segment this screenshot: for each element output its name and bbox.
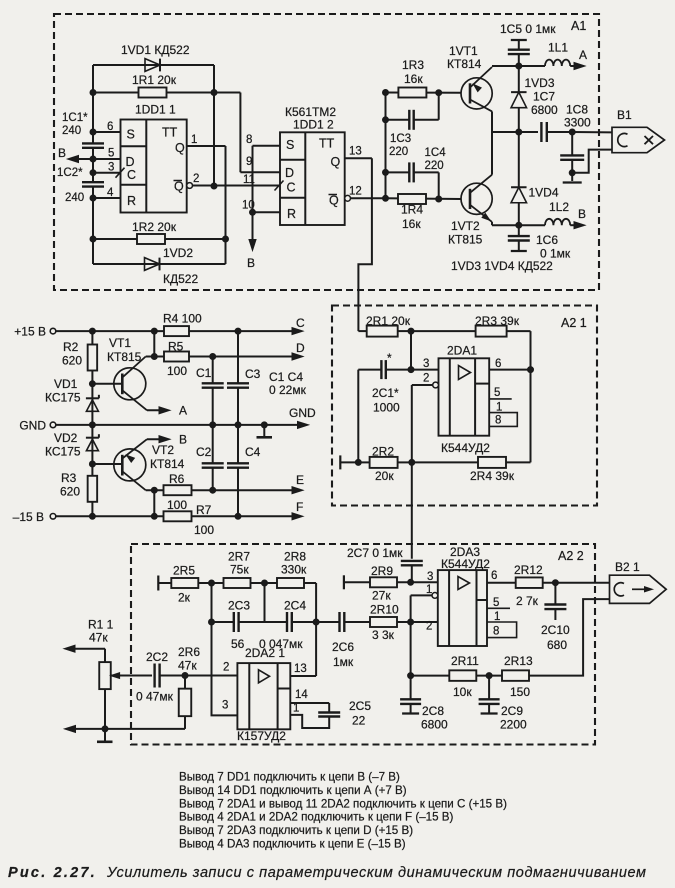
svg-text:2С3: 2С3 xyxy=(228,599,250,613)
svg-text:100: 100 xyxy=(194,523,214,537)
zener VD1 KS175 xyxy=(45,377,99,411)
svg-text:3: 3 xyxy=(108,162,114,174)
wire output node vertical to 2R3 and 2R4 xyxy=(530,331,532,462)
open terminal left of 2R9 xyxy=(344,575,370,589)
capacitor C1 xyxy=(196,357,224,425)
svg-text:5: 5 xyxy=(493,597,499,609)
input row to 2DA2.1 pin 2 xyxy=(111,650,238,704)
svg-text:100: 100 xyxy=(167,498,187,512)
capacitor 2C3 56 xyxy=(212,599,265,652)
capacitor 2C10 680 xyxy=(541,583,570,652)
svg-text:С2: С2 xyxy=(196,445,212,459)
svg-text:16к: 16к xyxy=(402,217,421,231)
label C1 C4 0.22uF xyxy=(269,370,307,397)
svg-text:R: R xyxy=(127,194,136,208)
svg-text:1VD4: 1VD4 xyxy=(529,186,559,200)
svg-text:1VT1: 1VT1 xyxy=(449,44,478,58)
resistor 2R13 150 xyxy=(502,654,533,699)
svg-text:1мк: 1мк xyxy=(333,655,354,669)
svg-text:6: 6 xyxy=(495,358,501,370)
svg-text:1L2: 1L2 xyxy=(549,200,569,214)
wire pin1 node down to 2R11 row xyxy=(408,622,414,679)
diode 1VD2 KD522 xyxy=(93,246,226,286)
svg-text:1С7: 1С7 xyxy=(533,90,555,104)
svg-text:10к: 10к xyxy=(453,685,472,699)
svg-text:Вывод 7 2DA3 подключить к цепи: Вывод 7 2DA3 подключить к цепи D (+15 В) xyxy=(179,824,413,837)
svg-text:330к: 330к xyxy=(281,563,307,577)
svg-text:1: 1 xyxy=(496,402,502,414)
pins 1 and 8 bracket 2DA3 xyxy=(487,611,517,638)
svg-text:1000: 1000 xyxy=(373,401,400,415)
node A arrow xyxy=(570,48,587,70)
wire left power rail xyxy=(89,331,95,519)
svg-text:Вывод 4 DA3 подключить к цепи: Вывод 4 DA3 подключить к цепи Е (–15 В) xyxy=(179,838,406,851)
capacitor 1C3 220 xyxy=(386,93,439,158)
svg-text:240: 240 xyxy=(62,125,81,137)
pin 5 wire D input 1DD1.1 xyxy=(93,148,121,160)
svg-text:D: D xyxy=(296,341,305,355)
svg-text:C: C xyxy=(287,181,296,195)
svg-text:13: 13 xyxy=(349,146,362,158)
diode 1VD4 xyxy=(511,186,559,203)
svg-text:2С2: 2С2 xyxy=(146,650,168,664)
svg-text:А2 1: А2 1 xyxy=(561,316,587,330)
svg-text:1С8: 1С8 xyxy=(566,103,588,117)
svg-text:1R1 20к: 1R1 20к xyxy=(132,73,177,87)
resistor R2 620 xyxy=(62,340,97,371)
pin 1 wire 2DA3 with bubble xyxy=(411,584,438,622)
svg-text:TT: TT xyxy=(162,126,178,140)
svg-text:1С2*: 1С2* xyxy=(57,167,83,179)
svg-text:100: 100 xyxy=(167,364,187,378)
svg-text:R5: R5 xyxy=(168,340,184,354)
svg-text:R4 100: R4 100 xyxy=(163,312,202,326)
svg-text:4: 4 xyxy=(107,187,114,199)
svg-text:КТ814: КТ814 xyxy=(447,57,482,71)
capacitor 1C1 240 xyxy=(62,112,104,148)
op-amp 2DA3 K544UD2 xyxy=(438,545,490,646)
svg-text:1DD1 1: 1DD1 1 xyxy=(135,103,176,117)
svg-text:1: 1 xyxy=(426,584,432,596)
svg-text:1С1*: 1С1* xyxy=(62,112,88,124)
svg-text:6800: 6800 xyxy=(421,718,448,732)
resistor 2R2 20k xyxy=(358,445,415,484)
svg-text:2R12: 2R12 xyxy=(514,563,543,577)
svg-text:R6: R6 xyxy=(169,472,185,486)
svg-text:А2 2: А2 2 xyxy=(558,549,584,563)
svg-text:VD2: VD2 xyxy=(54,431,78,445)
svg-text:2R5: 2R5 xyxy=(173,564,195,578)
svg-text:КТ815: КТ815 xyxy=(448,233,483,247)
svg-text:В: В xyxy=(58,146,66,160)
wire 2R5 node rail down to pin3 row xyxy=(209,583,238,715)
connector B2.1 xyxy=(610,560,667,603)
diode 1VD1 KD522 xyxy=(93,43,214,71)
svg-text:S: S xyxy=(286,138,294,152)
wire 1R1 node to D input of 1DD1.2 xyxy=(214,93,280,173)
op-amp 2DA2.1 K157UD2 xyxy=(222,646,290,743)
svg-text:220: 220 xyxy=(389,146,408,158)
wire 2R2 node down to 2C7 xyxy=(411,462,413,558)
svg-text:14: 14 xyxy=(295,689,308,701)
terminal -15V xyxy=(13,510,93,524)
svg-text:56: 56 xyxy=(231,637,245,651)
pin 2 Q-bar output 1DD1.1 with bubble xyxy=(187,173,280,188)
svg-text:9: 9 xyxy=(246,156,252,168)
block A1 dashed frame xyxy=(54,14,599,290)
svg-text:0 47мк: 0 47мк xyxy=(136,690,174,704)
svg-text:Вывод 7 2DA1 и вывод 11 2DA2 п: Вывод 7 2DA1 и вывод 11 2DA2 подключить … xyxy=(179,797,507,810)
wire left rail of oscillator xyxy=(90,65,96,264)
transistor VT2 KT814 xyxy=(92,439,184,490)
wiper arrow of R1.1 xyxy=(111,673,131,679)
transistor VT1 KT815 xyxy=(92,336,147,410)
svg-text:Е: Е xyxy=(296,473,304,487)
svg-text:К157УД2: К157УД2 xyxy=(237,729,286,743)
svg-text:В: В xyxy=(247,256,255,270)
svg-text:2R8: 2R8 xyxy=(284,550,306,564)
svg-text:C: C xyxy=(127,168,136,182)
svg-text:VD1: VD1 xyxy=(54,377,78,391)
svg-text:1DD1 2: 1DD1 2 xyxy=(293,118,334,132)
wire output node to B1 xyxy=(569,129,612,135)
wire bottom rail emitter 1VT2 to arrow B xyxy=(492,222,545,228)
svg-text:А: А xyxy=(579,48,587,62)
svg-text:1VD1 КД522: 1VD1 КД522 xyxy=(121,43,190,57)
wire R4 row to R5 row xyxy=(151,331,157,359)
svg-text:*: * xyxy=(387,351,392,365)
svg-text:8: 8 xyxy=(493,626,499,638)
transistor 1VT2 KT815 xyxy=(448,132,492,247)
capacitor 1C6 0.1uF xyxy=(508,225,571,260)
resistor 2R12 2.7k xyxy=(514,563,610,608)
svg-text:680: 680 xyxy=(547,638,567,652)
svg-text:1С6: 1С6 xyxy=(536,233,558,247)
resistor 2R7 75k xyxy=(224,550,278,589)
pin 14 wire 2DA2.1 xyxy=(290,689,329,703)
svg-text:2R11: 2R11 xyxy=(451,654,479,668)
pin 1 wire Q output 1DD1.1 xyxy=(187,134,226,146)
wire 2R8 right down to pin13 row xyxy=(313,583,319,676)
svg-text:2R13: 2R13 xyxy=(504,654,533,668)
wire +15V rail xyxy=(89,328,164,334)
capacitor 1C7 6800 xyxy=(492,90,572,143)
svg-text:1С5 0 1мк: 1С5 0 1мк xyxy=(500,22,556,36)
pin 5 stub 2DA1 xyxy=(489,387,512,399)
open terminal left of 2R5 xyxy=(158,576,171,591)
svg-text:А1: А1 xyxy=(571,19,586,33)
resistor R7 100 xyxy=(92,503,298,537)
svg-text:16к: 16к xyxy=(404,72,423,86)
svg-text:R1 1: R1 1 xyxy=(88,618,114,632)
diode 1VD3 xyxy=(511,76,555,108)
wire right rail of oscillator xyxy=(211,65,217,189)
svg-text:2к: 2к xyxy=(178,591,191,605)
resistor 2R4 39k xyxy=(412,457,531,483)
svg-text:27к: 27к xyxy=(372,589,391,603)
svg-text:С1 С4: С1 С4 xyxy=(269,370,303,384)
pin 10 wire R input 1DD1.2 xyxy=(242,200,280,213)
svg-text:R: R xyxy=(287,207,296,221)
zener VD2 KS175 xyxy=(45,431,99,459)
svg-text:3: 3 xyxy=(222,700,228,712)
capacitor C4 xyxy=(227,425,261,516)
svg-text:1L1: 1L1 xyxy=(548,41,568,55)
svg-text:2R9: 2R9 xyxy=(371,564,393,578)
svg-text:20к: 20к xyxy=(375,469,394,483)
svg-text:8: 8 xyxy=(246,134,252,146)
resistor R4 100 xyxy=(163,312,298,337)
svg-text:13: 13 xyxy=(294,663,307,675)
svg-text:240: 240 xyxy=(65,192,84,204)
svg-text:2R7: 2R7 xyxy=(228,550,250,564)
svg-text:Q: Q xyxy=(329,194,339,208)
svg-text:R3: R3 xyxy=(61,471,77,485)
figure caption xyxy=(8,865,647,881)
svg-text:VT1: VT1 xyxy=(109,336,131,350)
capacitor 2C1 1000 xyxy=(358,351,411,415)
svg-text:–15 В: –15 В xyxy=(13,510,44,524)
capacitor C2 xyxy=(196,425,224,490)
svg-text:1С4: 1С4 xyxy=(425,147,447,159)
block A2.1 dashed frame xyxy=(332,306,597,506)
pin 11 wire C input 1DD1.2 xyxy=(243,174,284,191)
svg-text:КТ815: КТ815 xyxy=(107,350,142,364)
svg-text:GND: GND xyxy=(289,406,316,420)
svg-text:+15 В: +15 В xyxy=(14,325,46,339)
svg-text:TT: TT xyxy=(319,137,335,151)
inductor 1L2 xyxy=(545,200,570,225)
node B arrow from VT2 collector wire xyxy=(147,433,187,447)
node B arrow left of 1DD1.1 xyxy=(58,146,93,163)
svg-text:S: S xyxy=(127,128,135,142)
ground symbol below R1.1 xyxy=(97,729,113,742)
op-amp 2DA1 K544UD2 xyxy=(439,344,491,456)
wire R6 row to R7 row xyxy=(151,490,157,519)
svg-text:1VD3 1VD4 КД522: 1VD3 1VD4 КД522 xyxy=(451,259,553,273)
svg-text:5: 5 xyxy=(108,148,114,160)
svg-text:22: 22 xyxy=(352,714,366,728)
node C arrow xyxy=(292,316,305,335)
capacitor 2C9 2200 xyxy=(479,676,527,732)
svg-text:2R1 20к: 2R1 20к xyxy=(366,314,411,328)
svg-text:1С3: 1С3 xyxy=(390,133,411,145)
resistor 2R8 330k xyxy=(277,550,316,589)
wire top rail emitter 1VT1 to arrow A xyxy=(492,63,545,69)
pins 1 and 8 bracket 2DA1 xyxy=(489,402,517,427)
wire 2R7 2R8 node down to caps row xyxy=(264,583,266,622)
pin 5 stub 2DA3 xyxy=(487,597,510,609)
wire GND rail xyxy=(92,422,303,428)
svg-text:А: А xyxy=(179,404,187,418)
svg-text:2: 2 xyxy=(423,373,429,385)
capacitor C3 xyxy=(227,331,261,425)
wire R1.1 top arrow xyxy=(64,645,105,652)
svg-text:С3: С3 xyxy=(245,367,261,381)
svg-text:В1: В1 xyxy=(617,108,632,122)
svg-text:2 7к: 2 7к xyxy=(516,594,539,608)
svg-text:В: В xyxy=(578,207,586,221)
svg-text:1VD3: 1VD3 xyxy=(525,76,555,90)
svg-text:D: D xyxy=(285,166,294,180)
svg-text:1R3: 1R3 xyxy=(402,58,424,72)
svg-text:2С10: 2С10 xyxy=(541,623,570,637)
svg-text:150: 150 xyxy=(510,685,530,699)
svg-text:VT2: VT2 xyxy=(152,443,174,457)
wire 2C1 left to ground row xyxy=(357,370,359,463)
svg-text:1: 1 xyxy=(191,134,197,146)
transistor 1VT1 KT814 xyxy=(447,44,492,132)
capacitor 1C2 240 xyxy=(57,167,104,204)
svg-text:2С9: 2С9 xyxy=(501,704,523,718)
resistor 1R4 16k xyxy=(386,194,462,231)
svg-text:Q: Q xyxy=(175,141,185,155)
resistor 2R9 27k xyxy=(370,564,438,603)
resistor 2R5 2k xyxy=(171,564,223,605)
capacitor 2C6 1uF xyxy=(316,612,370,669)
pin 3 wire 2DA1 xyxy=(411,358,439,370)
resistor R6 100 xyxy=(146,472,298,512)
svg-text:2R4 39к: 2R4 39к xyxy=(470,469,515,483)
svg-text:2: 2 xyxy=(193,173,199,185)
wire 2R1 node down to pin3 row xyxy=(408,331,414,373)
svg-text:2200: 2200 xyxy=(500,718,527,732)
svg-text:3300: 3300 xyxy=(564,116,591,130)
capacitor 2C5 22 xyxy=(318,699,371,728)
inductor 1L1 xyxy=(545,41,570,67)
svg-text:2R2: 2R2 xyxy=(372,445,394,459)
svg-text:47к: 47к xyxy=(89,631,108,645)
svg-text:2DA2 1: 2DA2 1 xyxy=(245,646,285,660)
svg-text:С1: С1 xyxy=(196,366,212,380)
labels 2R6 47k xyxy=(178,645,200,673)
node E arrow xyxy=(292,473,304,494)
node D arrow xyxy=(292,341,305,360)
svg-text:620: 620 xyxy=(60,485,80,499)
wire driver left rail xyxy=(383,90,389,202)
svg-text:620: 620 xyxy=(62,354,82,368)
flip-flop 1DD1.1 xyxy=(121,103,187,213)
wire middle rail with diodes xyxy=(516,66,522,225)
svg-text:2: 2 xyxy=(223,662,229,674)
node B arrow top right xyxy=(570,207,586,229)
svg-text:2R6: 2R6 xyxy=(178,645,200,659)
svg-text:1R4: 1R4 xyxy=(401,203,423,217)
pin 4 wire R input 1DD1.1 xyxy=(93,187,121,199)
flip-flop 1DD1.2 K561TM2 xyxy=(280,105,345,225)
svg-text:В: В xyxy=(179,433,187,447)
resistor 1R3 16k xyxy=(386,58,462,98)
svg-text:Вывод 7 DD1 подключить к цепи: Вывод 7 DD1 подключить к цепи В (–7 В) xyxy=(179,771,400,784)
pin 6 output wire 2DA1 xyxy=(489,358,533,373)
capacitor 1C5 0.1uF xyxy=(500,22,556,66)
wire into A2.1 to 2R1 xyxy=(358,330,366,332)
wire from Q of 1DD1.1 down to 1VD2 row xyxy=(223,146,229,264)
svg-text:1VD2: 1VD2 xyxy=(163,246,193,260)
svg-text:2R3 39к: 2R3 39к xyxy=(475,314,520,328)
ground bar left of 2R2 xyxy=(340,455,361,469)
svg-text:5: 5 xyxy=(494,387,500,399)
resistor 2R1 20k xyxy=(366,314,414,337)
node F arrow xyxy=(292,500,303,520)
pin 12 Q-bar output 1DD1.2 with bubble xyxy=(345,186,386,202)
capacitor 2C8 6800 xyxy=(400,676,448,732)
terminal GND xyxy=(19,419,92,433)
svg-text:КТ814: КТ814 xyxy=(150,457,185,471)
svg-text:75к: 75к xyxy=(230,563,249,577)
svg-text:2С8: 2С8 xyxy=(422,704,444,718)
svg-text:В2 1: В2 1 xyxy=(615,560,640,574)
svg-text:6: 6 xyxy=(491,570,497,582)
resistor 1R2 20k xyxy=(93,220,226,244)
svg-text:D: D xyxy=(126,155,135,169)
wire B1 return pin xyxy=(572,150,612,173)
svg-text:Вывод 14 DD1 подключить к цепи: Вывод 14 DD1 подключить к цепи А (+7 В) xyxy=(179,784,407,797)
node A arrow from VT1 emitter xyxy=(147,404,187,418)
svg-text:3 3к: 3 3к xyxy=(372,628,395,642)
svg-text:2С1*: 2С1* xyxy=(372,386,399,400)
svg-text:2R10: 2R10 xyxy=(370,603,399,617)
potentiometer R1.1 47k xyxy=(88,618,114,732)
svg-text:1R2 20к: 1R2 20к xyxy=(132,220,177,234)
resistor 2R3 39k xyxy=(411,314,531,337)
wire S to R rail with node B down arrow xyxy=(247,146,256,270)
resistor 2R6 vertical xyxy=(179,676,192,729)
svg-text:6800: 6800 xyxy=(531,103,558,117)
svg-text:2С7 0 1мк: 2С7 0 1мк xyxy=(347,546,403,560)
svg-text:КС175: КС175 xyxy=(45,391,81,405)
pin 2 wire 2DA1 with bubble xyxy=(412,373,439,463)
capacitor 1C8 3300 xyxy=(560,103,591,183)
svg-text:С4: С4 xyxy=(245,445,261,459)
ground symbol on GND rail xyxy=(257,422,273,437)
connector B1 xyxy=(612,108,665,153)
pin 8 wire S input 1DD1.2 xyxy=(246,134,280,146)
resistor R3 620 xyxy=(60,471,97,502)
pin 1 wire 2DA2.1 and 2C5 path xyxy=(290,703,329,729)
svg-text:F: F xyxy=(296,500,303,514)
capacitor 2C4 0.047uF xyxy=(259,599,316,652)
svg-text:2С6: 2С6 xyxy=(332,640,354,654)
block A2.2 dashed frame xyxy=(131,544,595,745)
svg-text:6: 6 xyxy=(107,121,113,133)
svg-text:220: 220 xyxy=(425,160,444,172)
pin 13 Q output 1DD1.2 wire down to A2.1 xyxy=(345,146,372,332)
svg-text:Рис. 2.27.: Рис. 2.27. xyxy=(8,865,97,881)
capacitor 2C7 0.1uF xyxy=(347,546,423,582)
terminal +15V xyxy=(14,325,92,339)
wire R1.1 bottom row with arrow xyxy=(65,725,186,732)
resistor 1R1 20k xyxy=(93,73,214,98)
resistor R5 100 xyxy=(146,340,298,379)
svg-text:0 22мк: 0 22мк xyxy=(269,383,307,397)
svg-text:0 1мк: 0 1мк xyxy=(540,247,571,261)
svg-text:2С5: 2С5 xyxy=(349,699,371,713)
svg-text:Q: Q xyxy=(331,155,341,169)
pin 6 wire S input 1DD1.1 xyxy=(93,121,121,133)
svg-text:GND: GND xyxy=(19,419,46,433)
svg-text:К544УД2: К544УД2 xyxy=(441,441,490,455)
svg-text:С: С xyxy=(296,316,305,330)
svg-text:2DA1: 2DA1 xyxy=(447,344,477,358)
svg-text:3: 3 xyxy=(423,358,429,370)
svg-text:Усилитель записи с параметриче: Усилитель записи с параметрическим динам… xyxy=(106,865,647,881)
wire B2.1 return pin xyxy=(529,599,609,676)
pin 6 output wire 2DA3 xyxy=(487,570,517,583)
svg-text:КД522: КД522 xyxy=(163,272,198,286)
resistor 2R11 10k xyxy=(411,654,502,699)
svg-text:47к: 47к xyxy=(178,659,197,673)
